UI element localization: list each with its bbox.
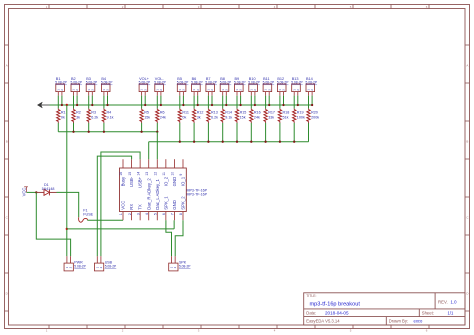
junction VOL+ bbox=[144, 104, 146, 106]
svg-text:12: 12 bbox=[153, 172, 157, 176]
wire R6 to adkey bus bbox=[156, 123, 158, 132]
connector B8 5.08-2P bbox=[220, 84, 229, 92]
pin 15 USB- bbox=[131, 159, 133, 168]
connector B11 5.08-2P bbox=[263, 84, 272, 92]
junction VCC node bbox=[35, 191, 37, 193]
svg-text:1.0: 1.0 bbox=[451, 299, 458, 304]
svg-text:3k: 3k bbox=[197, 116, 201, 120]
resistor R17 33k bbox=[265, 108, 267, 109]
resistor R2 3k bbox=[73, 108, 75, 109]
connector B4 5.08-2P bbox=[101, 84, 110, 92]
wire B5 pin2 to bus bbox=[182, 96, 184, 105]
wire SPK_2 bbox=[175, 220, 183, 256]
junction bbox=[103, 131, 105, 133]
wire D1 to F1 bbox=[57, 192, 79, 217]
connector B9 5.08-2P bbox=[235, 84, 244, 92]
wire B13 pin1 to R19 bbox=[293, 96, 295, 109]
svg-text:FUSE: FUSE bbox=[83, 213, 93, 217]
IC U1 MP3-TF-16P bbox=[120, 168, 187, 212]
wire B10 pin2 to bus bbox=[254, 96, 256, 105]
resistor R15 15k bbox=[236, 108, 238, 109]
junction B7 bbox=[211, 104, 213, 106]
svg-text:5: 5 bbox=[153, 213, 157, 215]
svg-text:2: 2 bbox=[128, 213, 132, 215]
svg-text:GND: GND bbox=[172, 200, 177, 210]
svg-text:1/1: 1/1 bbox=[448, 310, 454, 315]
resistor R13 6.2k bbox=[207, 108, 209, 109]
net arrow GND bbox=[37, 102, 42, 108]
svg-text:100k: 100k bbox=[297, 116, 305, 120]
connector VOL- 5.08-2P bbox=[155, 84, 164, 92]
svg-text:Dac_L ADkey_1: Dac_L ADkey_1 bbox=[155, 178, 160, 209]
connector B3 5.08-2P bbox=[86, 84, 95, 92]
svg-text:Sheet:: Sheet: bbox=[422, 310, 434, 315]
svg-text:15k: 15k bbox=[240, 116, 246, 120]
svg-text:C: C bbox=[6, 216, 8, 220]
pin 12 bbox=[156, 159, 158, 168]
junction bbox=[250, 141, 252, 143]
wire B14 pin1 to R20 bbox=[308, 96, 310, 109]
svg-text:14: 14 bbox=[136, 172, 140, 176]
svg-text:mp3-tf-16p breakout: mp3-tf-16p breakout bbox=[310, 302, 361, 308]
junction R6 bbox=[156, 131, 158, 133]
junction B12 bbox=[282, 104, 284, 106]
svg-text:REV.: REV. bbox=[438, 299, 448, 304]
svg-text:IO_2: IO_2 bbox=[163, 176, 168, 186]
svg-text:A: A bbox=[6, 64, 8, 68]
wire F1 to pin1 VCC bbox=[87, 219, 123, 221]
wire adkey2 bus bbox=[149, 141, 309, 143]
svg-text:5.08-2P: 5.08-2P bbox=[234, 81, 246, 85]
svg-text:15: 15 bbox=[128, 172, 132, 176]
wire USB+ to pin14 bbox=[101, 152, 140, 256]
resistor R5 15k bbox=[141, 108, 143, 109]
pin 10 GND bbox=[173, 159, 175, 168]
svg-text:C: C bbox=[466, 216, 468, 220]
svg-text:VCC: VCC bbox=[121, 201, 126, 210]
svg-text:5.08-2P: 5.08-2P bbox=[177, 81, 189, 85]
wire GND bus bbox=[50, 104, 314, 106]
svg-text:R12: R12 bbox=[197, 111, 204, 115]
wire B1 pin1 to R1 bbox=[57, 96, 59, 109]
svg-text:5.08-2P: 5.08-2P bbox=[105, 264, 117, 268]
svg-text:7: 7 bbox=[171, 213, 175, 215]
wire R17 to adkey bus bbox=[265, 123, 267, 142]
diode D1 1N4148 bbox=[36, 191, 44, 193]
resistor R18 51k bbox=[279, 108, 281, 109]
wire B8 pin2 to bus bbox=[225, 96, 227, 105]
junction bbox=[293, 141, 295, 143]
wire R11 to adkey bus bbox=[179, 123, 181, 142]
junction bbox=[88, 131, 90, 133]
title block bbox=[304, 293, 465, 325]
resistor R20 200k bbox=[308, 108, 310, 109]
wire ADkey_1 to pin12 bbox=[156, 132, 158, 159]
svg-text:5.08-2P: 5.08-2P bbox=[86, 81, 98, 85]
wire R20 to adkey bus bbox=[308, 123, 310, 142]
wire R2 to adkey bus bbox=[73, 123, 75, 132]
wire GND vertical bbox=[66, 105, 68, 256]
svg-text:TX: TX bbox=[138, 204, 143, 210]
svg-text:5.08-2P: 5.08-2P bbox=[74, 264, 86, 268]
svg-text:5.08-2P: 5.08-2P bbox=[55, 81, 67, 85]
connector B14 5.08-2P bbox=[306, 84, 315, 92]
junction B3 bbox=[91, 104, 93, 106]
pin 6 SPK_1 bbox=[165, 212, 167, 221]
resistor R6 24k bbox=[156, 108, 158, 109]
connector SPK 5.08-2P bbox=[171, 256, 173, 263]
svg-text:2018-04-05: 2018-04-05 bbox=[325, 311, 349, 316]
connector B5 5.08-2P bbox=[177, 84, 186, 92]
resistor R14 9.1k bbox=[222, 108, 224, 109]
pin 5 Dac_L ADkey_1 bbox=[156, 212, 158, 221]
junction bbox=[264, 141, 266, 143]
wire B4 pin1 to R4 bbox=[103, 96, 105, 109]
svg-text:3k: 3k bbox=[76, 116, 80, 120]
svg-text:TITLE:: TITLE: bbox=[306, 294, 316, 298]
junction bbox=[279, 141, 281, 143]
svg-text:B: B bbox=[466, 140, 468, 144]
svg-text:16: 16 bbox=[119, 172, 123, 176]
svg-text:5.08-2P: 5.08-2P bbox=[71, 81, 83, 85]
svg-text:5.08-2P: 5.08-2P bbox=[248, 81, 260, 85]
svg-text:6.2k: 6.2k bbox=[91, 116, 98, 120]
svg-text:Dac_R ADkey_2: Dac_R ADkey_2 bbox=[146, 178, 151, 210]
connector USB 5.08-2P bbox=[96, 256, 98, 263]
svg-text:R2: R2 bbox=[76, 111, 81, 115]
junction B4 bbox=[106, 104, 108, 106]
svg-text:EasyEDA V5.3.14: EasyEDA V5.3.14 bbox=[306, 319, 340, 324]
svg-text:SPK_2: SPK_2 bbox=[181, 196, 186, 210]
svg-text:D: D bbox=[466, 292, 468, 296]
resistor R12 3k bbox=[193, 108, 195, 109]
wire R13 to adkey bus bbox=[207, 123, 209, 142]
junction B1 bbox=[61, 104, 63, 106]
pin 2 RX bbox=[131, 212, 133, 221]
svg-text:9: 9 bbox=[179, 174, 183, 176]
svg-text:200k: 200k bbox=[311, 116, 319, 120]
wire R15 to adkey bus bbox=[236, 123, 238, 142]
svg-text:5.08-2P: 5.08-2P bbox=[291, 81, 303, 85]
junction B14 bbox=[311, 104, 313, 106]
junction B5 bbox=[182, 104, 184, 106]
wire B3 pin1 to R3 bbox=[88, 96, 90, 109]
svg-text:51k: 51k bbox=[283, 116, 289, 120]
junction B9 bbox=[239, 104, 241, 106]
svg-text:5.08-2P: 5.08-2P bbox=[139, 81, 151, 85]
pin 7 GND bbox=[173, 212, 175, 221]
svg-text:9.1k: 9.1k bbox=[225, 116, 232, 120]
svg-text:R17: R17 bbox=[268, 111, 275, 115]
svg-text:6.2k: 6.2k bbox=[211, 116, 218, 120]
svg-text:R15: R15 bbox=[240, 111, 247, 115]
junction B2 bbox=[76, 104, 78, 106]
fuse F1 FUSE bbox=[79, 217, 88, 222]
connector B10 5.08-2P bbox=[249, 84, 258, 92]
resistor R16 24k bbox=[250, 108, 252, 109]
pin 4 Dac_R ADkey_2 bbox=[148, 212, 150, 221]
connector PWR 5.08-2P bbox=[66, 256, 68, 263]
svg-text:0k: 0k bbox=[182, 116, 186, 120]
wire B2 pin1 to R2 bbox=[73, 96, 75, 109]
svg-text:11: 11 bbox=[162, 172, 166, 176]
junction GND bbox=[66, 228, 68, 230]
svg-text:5.08-2P: 5.08-2P bbox=[191, 81, 203, 85]
svg-text:24k: 24k bbox=[160, 116, 166, 120]
wire B3 pin2 to bus bbox=[91, 96, 93, 105]
svg-text:MP3-TF-16P: MP3-TF-16P bbox=[187, 193, 208, 197]
wire SPK_1 bbox=[166, 220, 172, 256]
wire B14 pin2 to bus bbox=[311, 96, 313, 105]
svg-text:SPK_1: SPK_1 bbox=[163, 196, 168, 210]
svg-text:D: D bbox=[6, 292, 8, 296]
wire R16 to adkey bus bbox=[250, 123, 252, 142]
svg-text:R6: R6 bbox=[160, 111, 165, 115]
svg-text:RX: RX bbox=[129, 204, 134, 210]
wire R12 to adkey bus bbox=[193, 123, 195, 142]
wire R18 to adkey bus bbox=[279, 123, 281, 142]
wire B11 pin2 to bus bbox=[268, 96, 270, 105]
svg-text:R1: R1 bbox=[61, 111, 66, 115]
wire R1 to adkey bus bbox=[57, 123, 59, 132]
junction B8 bbox=[225, 104, 227, 106]
wire R14 to adkey bus bbox=[222, 123, 224, 142]
svg-text:R13: R13 bbox=[211, 111, 218, 115]
svg-text:R11: R11 bbox=[182, 111, 189, 115]
junction B6 bbox=[197, 104, 199, 106]
pin 1 VCC bbox=[122, 212, 124, 221]
svg-text:5.08-2P: 5.08-2P bbox=[205, 81, 217, 85]
wire B5 pin1 to R11 bbox=[179, 96, 181, 109]
svg-text:0k: 0k bbox=[61, 116, 65, 120]
svg-text:5.08-2P: 5.08-2P bbox=[101, 81, 113, 85]
svg-text:VCC: VCC bbox=[21, 188, 26, 197]
connector B13 5.08-2P bbox=[292, 84, 301, 92]
junction bbox=[236, 141, 238, 143]
svg-text:R3: R3 bbox=[91, 111, 96, 115]
svg-text:3: 3 bbox=[136, 213, 140, 215]
svg-text:R4: R4 bbox=[107, 111, 112, 115]
svg-text:5.08-2P: 5.08-2P bbox=[154, 81, 166, 85]
wire R3 to adkey bus bbox=[88, 123, 90, 132]
svg-text:15k: 15k bbox=[144, 116, 150, 120]
pin 9 IO_1 bbox=[182, 159, 184, 168]
svg-text:R20: R20 bbox=[311, 111, 318, 115]
connector B12 5.08-2P bbox=[277, 84, 286, 92]
svg-text:A: A bbox=[466, 64, 468, 68]
svg-text:USB+: USB+ bbox=[138, 176, 143, 188]
junction VOL- bbox=[160, 104, 162, 106]
svg-text:Busy: Busy bbox=[121, 176, 126, 186]
svg-text:R18: R18 bbox=[283, 111, 290, 115]
svg-text:5.08-2P: 5.08-2P bbox=[179, 264, 191, 268]
wire B4 pin2 to bus bbox=[107, 96, 109, 105]
wire B7 pin1 to R13 bbox=[207, 96, 209, 109]
pin 14 USB+ bbox=[139, 159, 141, 168]
svg-text:8: 8 bbox=[179, 213, 183, 215]
junction bbox=[72, 131, 74, 133]
wire adkey1 bus bbox=[58, 131, 157, 133]
connector VOL+ 5.08-2P bbox=[139, 84, 148, 92]
svg-text:9.1k: 9.1k bbox=[107, 116, 114, 120]
wire B11 pin1 to R17 bbox=[265, 96, 267, 109]
junction B10 bbox=[254, 104, 256, 106]
wire B2 pin2 to bus bbox=[76, 96, 78, 105]
wire VOL- pin2 to bus bbox=[160, 96, 162, 105]
svg-text:13: 13 bbox=[145, 172, 149, 176]
wire B1 pin2 to bus bbox=[61, 96, 63, 105]
connector B6 5.08-2P bbox=[192, 84, 201, 92]
svg-text:6: 6 bbox=[162, 213, 166, 215]
wire VOL- pin1 to R6 bbox=[156, 96, 158, 109]
pin 16 Busy bbox=[122, 159, 124, 168]
wire ADkey_2 to pin13 bbox=[148, 142, 150, 160]
svg-text:IO_1: IO_1 bbox=[181, 176, 186, 186]
pin 13 bbox=[148, 159, 150, 168]
svg-text:R16: R16 bbox=[254, 111, 261, 115]
svg-text:USB-: USB- bbox=[129, 176, 134, 187]
pin 11 IO_2 bbox=[165, 159, 167, 168]
wire R4 to adkey bus bbox=[103, 123, 105, 132]
svg-text:Date:: Date: bbox=[306, 310, 316, 315]
svg-text:10: 10 bbox=[171, 172, 175, 176]
junction bbox=[222, 141, 224, 143]
svg-text:R5: R5 bbox=[144, 111, 149, 115]
junction B11 bbox=[268, 104, 270, 106]
svg-text:24k: 24k bbox=[254, 116, 260, 120]
pin 8 SPK_2 bbox=[182, 212, 184, 221]
wire B9 pin1 to R15 bbox=[236, 96, 238, 109]
resistor R3 6.2k bbox=[88, 108, 90, 109]
svg-text:R14: R14 bbox=[225, 111, 232, 115]
junction bbox=[193, 141, 195, 143]
wire R5 to adkey bus bbox=[141, 123, 143, 132]
junction bbox=[207, 141, 209, 143]
svg-text:33k: 33k bbox=[268, 116, 274, 120]
resistor R19 100k bbox=[293, 108, 295, 109]
svg-text:B: B bbox=[6, 140, 8, 144]
svg-text:1N4148: 1N4148 bbox=[42, 187, 55, 191]
resistor R11 0k bbox=[179, 108, 181, 109]
wire VCC to PWR bbox=[36, 192, 70, 256]
svg-text:5.08-2P: 5.08-2P bbox=[277, 81, 289, 85]
wire B7 pin2 to bus bbox=[211, 96, 213, 105]
wire B12 pin1 to R18 bbox=[279, 96, 281, 109]
junction bbox=[140, 131, 142, 133]
connector B1 5.08-2P bbox=[56, 84, 65, 92]
svg-text:5.08-2P: 5.08-2P bbox=[263, 81, 275, 85]
svg-text:4: 4 bbox=[145, 213, 149, 215]
wire B6 pin2 to bus bbox=[197, 96, 199, 105]
svg-text:exco: exco bbox=[414, 319, 424, 324]
junction GND vertical bbox=[66, 104, 68, 106]
wire B10 pin1 to R16 bbox=[250, 96, 252, 109]
wire B9 pin2 to bus bbox=[240, 96, 242, 105]
wire B8 pin1 to R14 bbox=[222, 96, 224, 109]
junction B13 bbox=[297, 104, 299, 106]
connector B7 5.08-2P bbox=[206, 84, 215, 92]
svg-text:5.08-2P: 5.08-2P bbox=[220, 81, 232, 85]
svg-text:GND: GND bbox=[172, 177, 177, 187]
wire B12 pin2 to bus bbox=[283, 96, 285, 105]
svg-text:R19: R19 bbox=[297, 111, 304, 115]
resistor R4 9.1k bbox=[103, 108, 105, 109]
wire B6 pin1 to R12 bbox=[193, 96, 195, 109]
svg-text:1: 1 bbox=[119, 213, 123, 215]
junction bbox=[179, 141, 181, 143]
wire B13 pin2 to bus bbox=[297, 96, 299, 105]
resistor R1 0k bbox=[57, 108, 59, 109]
pin 3 TX bbox=[139, 212, 141, 221]
wire VCC to D1 bbox=[27, 191, 37, 193]
svg-text:Drawn By:: Drawn By: bbox=[389, 319, 408, 324]
connector B2 5.08-2P bbox=[71, 84, 80, 92]
wire VOL+ pin1 to R5 bbox=[141, 96, 143, 109]
wire VOL+ pin2 to bus bbox=[144, 96, 146, 105]
svg-text:5.08-2P: 5.08-2P bbox=[306, 81, 318, 85]
wire GND to pin7 bbox=[67, 228, 174, 230]
wire R19 to adkey bus bbox=[293, 123, 295, 142]
wire USB- to pin15 bbox=[97, 156, 131, 256]
